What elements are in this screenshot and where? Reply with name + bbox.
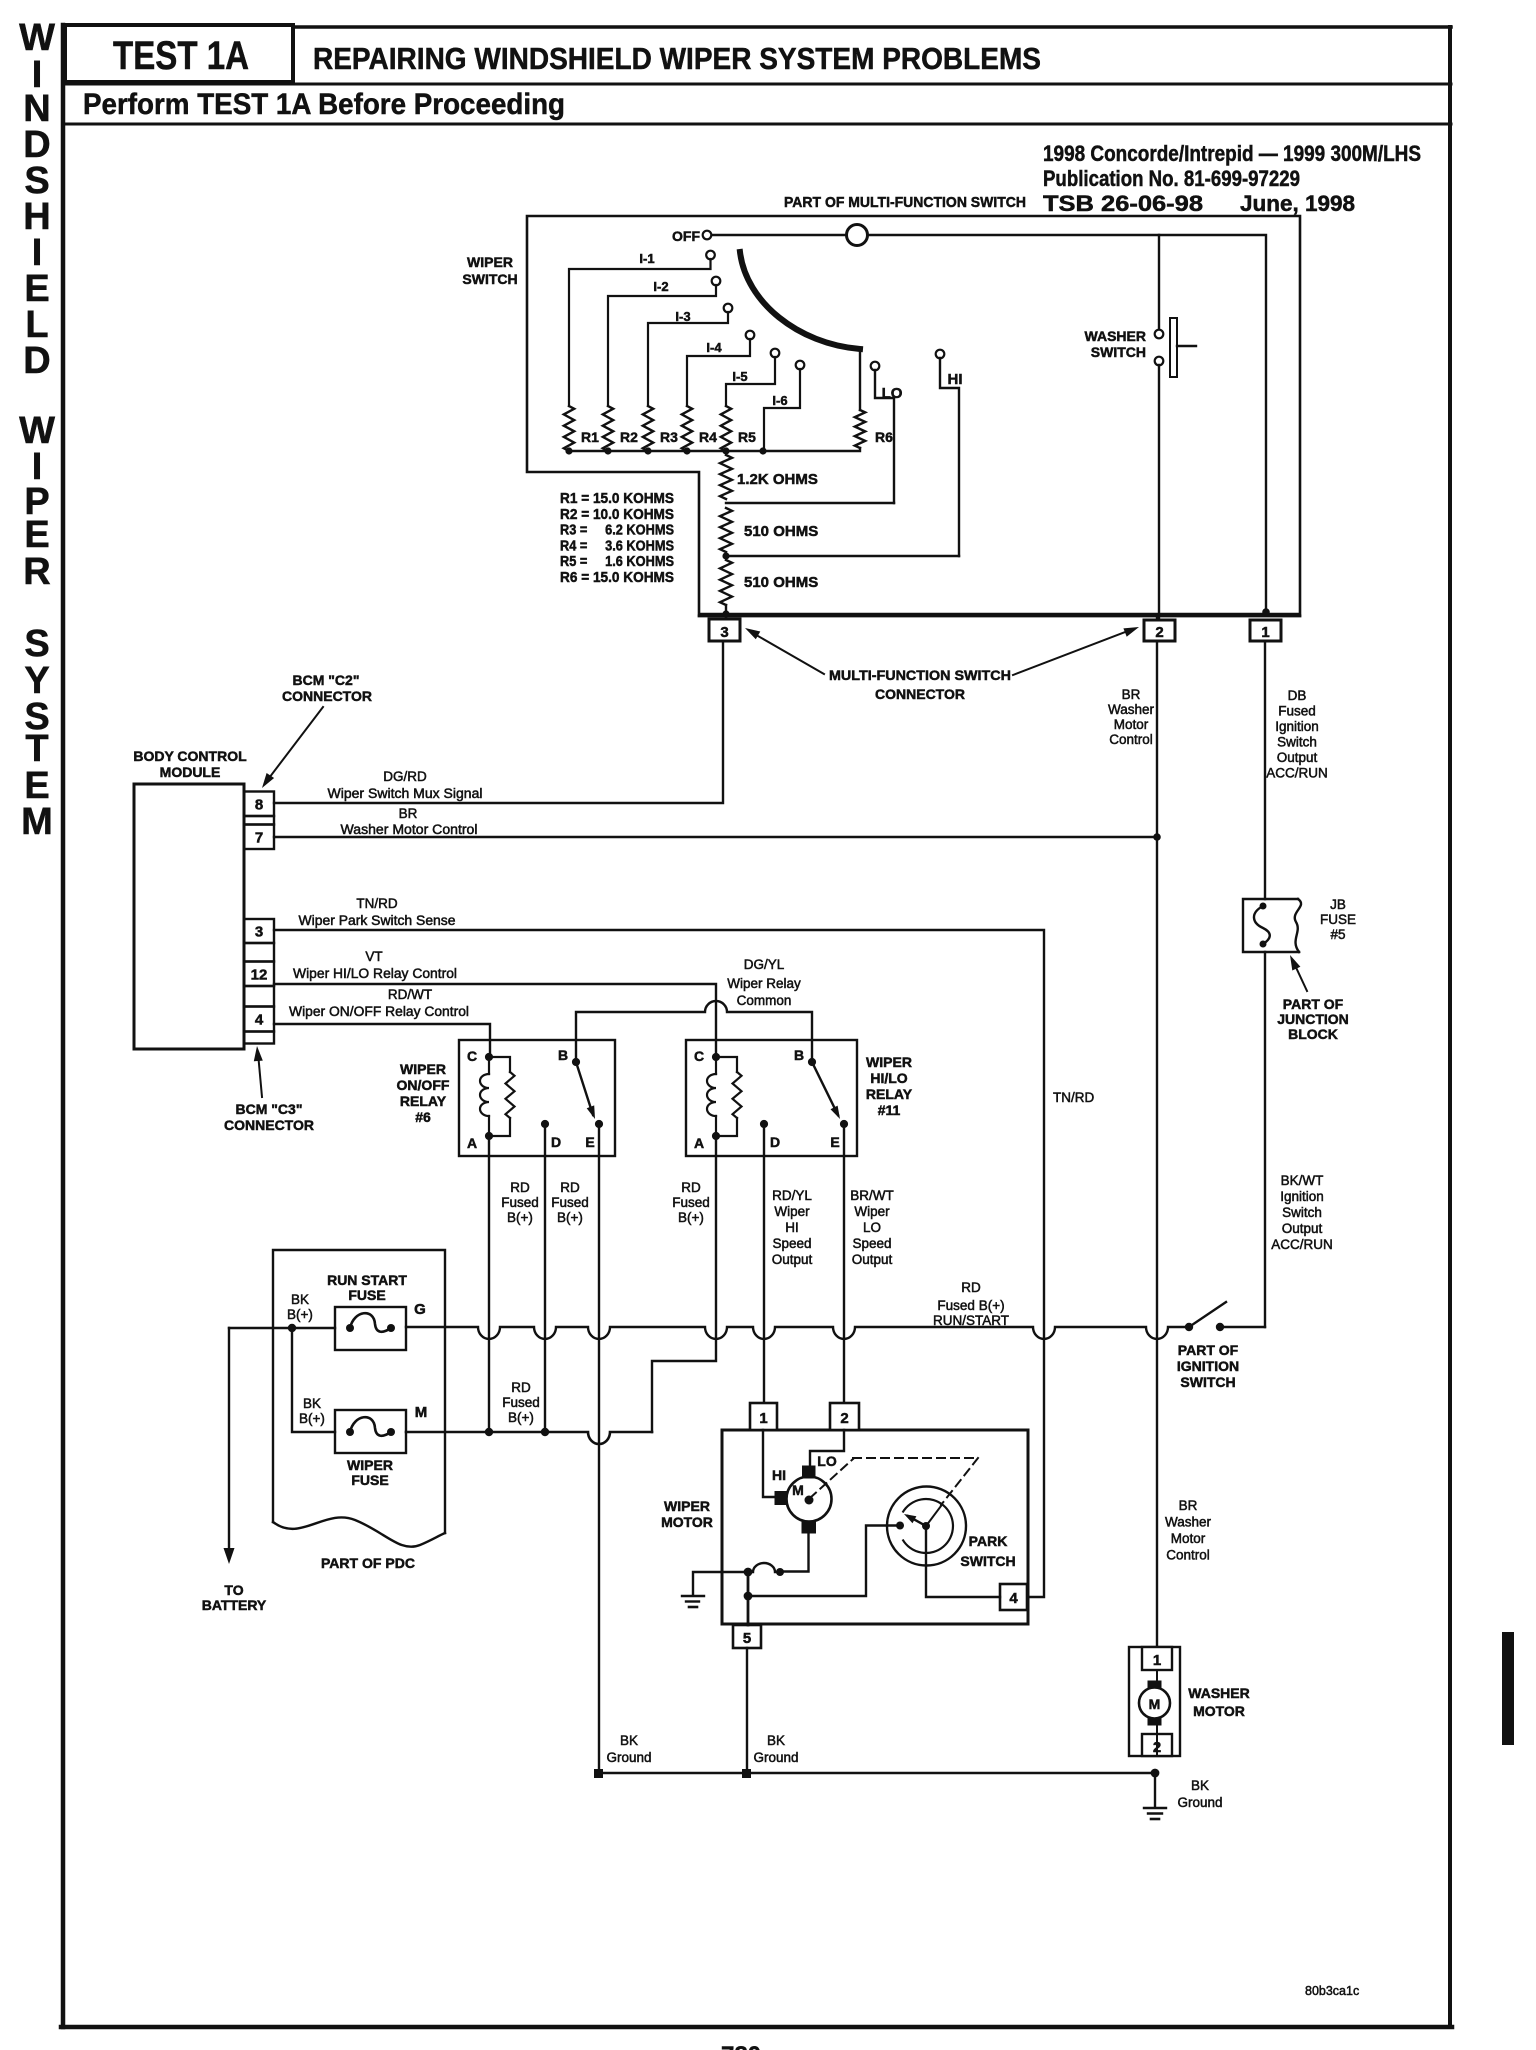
svg-text:RD/YL: RD/YL bbox=[772, 1188, 812, 1203]
svg-text:R2 = 10.0 KOHMS: R2 = 10.0 KOHMS bbox=[560, 507, 674, 523]
svg-text:Perform TEST 1A Before Proceed: Perform TEST 1A Before Proceeding bbox=[83, 88, 565, 121]
svg-text:I-4: I-4 bbox=[706, 340, 722, 355]
svg-text:SWITCH: SWITCH bbox=[1180, 1374, 1235, 1390]
arrow to connector 3 bbox=[745, 628, 824, 674]
motor pin 4 bbox=[1000, 1584, 1027, 1610]
svg-text:R1: R1 bbox=[581, 429, 599, 445]
TEST 1A box bbox=[65, 25, 293, 82]
relay WIPER ON/OFF RELAY #6 bbox=[459, 1040, 615, 1156]
label BR washer motor control upper bbox=[1108, 687, 1155, 747]
dashed mechanical link bbox=[810, 1458, 978, 1505]
washer motor box bbox=[1129, 1647, 1180, 1756]
svg-text:W: W bbox=[19, 17, 55, 59]
svg-text:Ground: Ground bbox=[753, 1750, 798, 1765]
svg-text:Wiper Switch Mux Signal: Wiper Switch Mux Signal bbox=[328, 786, 483, 801]
svg-text:CONNECTOR: CONNECTOR bbox=[875, 686, 965, 702]
label WIPER HI/LO RELAY #11 bbox=[866, 1054, 913, 1118]
svg-text:12: 12 bbox=[251, 966, 268, 983]
wire park left contact bbox=[752, 1526, 896, 1597]
terminal I-6 bbox=[764, 361, 804, 451]
svg-text:HI: HI bbox=[772, 1467, 786, 1483]
svg-text:Fused: Fused bbox=[502, 1395, 540, 1410]
label JB FUSE #5 bbox=[1320, 897, 1356, 942]
svg-text:RUN/START: RUN/START bbox=[933, 1313, 1009, 1328]
svg-text:2: 2 bbox=[840, 1410, 848, 1427]
svg-text:3: 3 bbox=[720, 624, 728, 641]
svg-text:RELAY: RELAY bbox=[866, 1086, 913, 1102]
label WIPER SWITCH bbox=[462, 254, 517, 287]
svg-text:WASHER: WASHER bbox=[1085, 328, 1146, 344]
plot id bbox=[1305, 1984, 1359, 1998]
svg-text:Common: Common bbox=[737, 993, 792, 1008]
label PART OF PDC bbox=[321, 1555, 415, 1571]
resistor R2 bbox=[603, 406, 638, 451]
svg-text:Output: Output bbox=[1277, 750, 1318, 765]
svg-text:JB: JB bbox=[1330, 897, 1346, 912]
label RUN START FUSE bbox=[327, 1272, 407, 1303]
node HI junction line bbox=[722, 552, 959, 559]
resistor 1.2K OHMS bbox=[720, 455, 818, 499]
label WASHER MOTOR bbox=[1188, 1685, 1249, 1719]
svg-text:Output: Output bbox=[852, 1252, 893, 1267]
scan artifact bar bbox=[1502, 1632, 1514, 1745]
label WASHER SWITCH bbox=[1085, 328, 1146, 360]
svg-text:TEST 1A: TEST 1A bbox=[113, 34, 249, 78]
wire relay11 A fused B+ bbox=[652, 1136, 716, 1432]
svg-text:B(+): B(+) bbox=[507, 1210, 533, 1225]
svg-text:Switch: Switch bbox=[1282, 1205, 1322, 1220]
svg-text:Fused: Fused bbox=[551, 1195, 589, 1210]
svg-text:Motor: Motor bbox=[1171, 1531, 1206, 1546]
svg-text:S: S bbox=[24, 623, 49, 665]
svg-text:D: D bbox=[23, 340, 50, 382]
motor pin 1 bbox=[750, 1403, 777, 1430]
svg-text:JUNCTION: JUNCTION bbox=[1277, 1011, 1349, 1027]
svg-text:780: 780 bbox=[721, 2042, 761, 2050]
header rule bbox=[63, 84, 1451, 124]
svg-text:BR: BR bbox=[1122, 687, 1141, 702]
svg-text:MOTOR: MOTOR bbox=[1193, 1703, 1245, 1719]
svg-text:510 OHMS: 510 OHMS bbox=[744, 574, 818, 591]
svg-text:June, 1998: June, 1998 bbox=[1240, 191, 1355, 216]
wire BR washer motor control bbox=[274, 806, 1161, 841]
wire relay6 A fused B+ bbox=[488, 1136, 490, 1432]
svg-text:Speed: Speed bbox=[852, 1236, 891, 1251]
svg-text:BR/WT: BR/WT bbox=[850, 1188, 894, 1203]
label BCM C3 CONNECTOR bbox=[224, 1046, 314, 1133]
vertical page title WINDSHIELD WIPER SYSTEM bbox=[19, 17, 55, 843]
node LO junction line bbox=[726, 502, 894, 504]
svg-text:R4: R4 bbox=[699, 429, 717, 445]
svg-text:Control: Control bbox=[1109, 732, 1153, 747]
wire motor pin1 to HI brush bbox=[763, 1430, 775, 1497]
cam arc bbox=[740, 252, 860, 349]
wiper motor box bbox=[722, 1430, 1028, 1624]
label MULTI-FUNCTION SWITCH CONNECTOR bbox=[829, 667, 1011, 702]
svg-text:I-6: I-6 bbox=[772, 393, 787, 408]
svg-text:WIPER: WIPER bbox=[400, 1061, 446, 1077]
thermal breaker bbox=[744, 1563, 784, 1576]
svg-text:G: G bbox=[414, 1301, 426, 1318]
label BR/WT wiper lo speed output bbox=[850, 1188, 894, 1267]
vehicle info text bbox=[1043, 141, 1421, 216]
svg-text:M: M bbox=[1149, 1696, 1161, 1712]
svg-text:B(+): B(+) bbox=[557, 1210, 583, 1225]
JB fuse #5 bbox=[1243, 899, 1301, 952]
svg-text:8: 8 bbox=[255, 796, 263, 813]
svg-text:I-2: I-2 bbox=[653, 279, 668, 294]
svg-text:#11: #11 bbox=[878, 1102, 901, 1118]
svg-text:3: 3 bbox=[255, 924, 263, 941]
svg-text:DG/YL: DG/YL bbox=[744, 957, 785, 972]
svg-text:PARK: PARK bbox=[969, 1533, 1008, 1549]
multi-function switch box bbox=[527, 216, 1300, 616]
svg-text:PART OF: PART OF bbox=[1178, 1342, 1239, 1358]
svg-text:RUN START: RUN START bbox=[327, 1272, 407, 1288]
svg-text:TN/RD: TN/RD bbox=[356, 896, 397, 911]
svg-text:BK: BK bbox=[303, 1396, 321, 1411]
svg-text:REPAIRING WINDSHIELD WIPER SYS: REPAIRING WINDSHIELD WIPER SYSTEM PROBLE… bbox=[313, 41, 1041, 76]
label RD fused B+ RUN/START bbox=[933, 1280, 1009, 1328]
PDC box bbox=[273, 1250, 445, 1547]
svg-text:SWITCH: SWITCH bbox=[960, 1553, 1015, 1569]
svg-text:510 OHMS: 510 OHMS bbox=[744, 523, 818, 540]
svg-text:I-1: I-1 bbox=[639, 251, 654, 266]
wire relay6 E ground bbox=[598, 1124, 600, 1773]
svg-text:ON/OFF: ON/OFF bbox=[397, 1077, 450, 1093]
resistor 510 OHMS lower bbox=[720, 560, 818, 605]
washer motor pin 1 bbox=[1142, 1647, 1172, 1670]
svg-text:BLOCK: BLOCK bbox=[1288, 1026, 1338, 1042]
svg-text:D: D bbox=[770, 1134, 780, 1150]
svg-text:R6: R6 bbox=[875, 429, 893, 445]
label WIPER MOTOR bbox=[661, 1498, 713, 1530]
svg-text:C: C bbox=[467, 1048, 477, 1064]
svg-text:Fused: Fused bbox=[672, 1195, 710, 1210]
label TN/RD mid bbox=[1053, 1090, 1094, 1105]
svg-text:VT: VT bbox=[365, 949, 382, 964]
svg-text:SWITCH: SWITCH bbox=[462, 271, 517, 287]
svg-text:RD: RD bbox=[681, 1180, 701, 1195]
label RD fused B+ (relay11 A) bbox=[672, 1180, 710, 1225]
label BR washer motor control lower bbox=[1165, 1498, 1212, 1563]
terminal I-5 bbox=[726, 349, 779, 406]
arrow to connector 2 bbox=[1013, 627, 1139, 675]
svg-text:R3: R3 bbox=[660, 429, 678, 445]
arrow to JB fuse bbox=[1290, 955, 1307, 991]
wire cam to R6 bbox=[859, 349, 861, 410]
resistor R6 bbox=[855, 410, 893, 448]
wire OFF feed bbox=[711, 235, 1266, 612]
ground symbol motor case bbox=[682, 1596, 704, 1607]
svg-text:M: M bbox=[415, 1404, 428, 1421]
svg-text:5: 5 bbox=[743, 1630, 751, 1647]
wire BK B+ to wiper fuse bbox=[292, 1328, 335, 1432]
svg-text:WIPER: WIPER bbox=[664, 1498, 710, 1514]
wire TN/RD wiper park switch sense bbox=[274, 896, 1044, 1597]
connector pin 1 bbox=[1250, 620, 1281, 641]
svg-text:M: M bbox=[21, 801, 53, 843]
svg-text:E: E bbox=[24, 514, 49, 556]
svg-text:R2: R2 bbox=[620, 429, 638, 445]
BCM body control module box bbox=[134, 784, 244, 1049]
svg-text:Washer: Washer bbox=[1108, 702, 1155, 717]
svg-text:R6 = 15.0 KOHMS: R6 = 15.0 KOHMS bbox=[560, 570, 674, 586]
header title bbox=[313, 41, 1041, 76]
svg-text:LO: LO bbox=[817, 1453, 837, 1469]
svg-text:Wiper: Wiper bbox=[774, 1204, 810, 1219]
svg-text:Wiper Park Switch Sense: Wiper Park Switch Sense bbox=[299, 913, 456, 928]
wire DB fused ignition output bbox=[1264, 641, 1266, 899]
svg-text:E: E bbox=[830, 1134, 839, 1150]
bus RD fused B+ RUN/START bbox=[406, 1327, 1185, 1339]
ignition switch bbox=[1185, 1302, 1265, 1331]
svg-text:ACC/RUN: ACC/RUN bbox=[1271, 1237, 1333, 1252]
terminal LO bbox=[871, 362, 903, 503]
svg-text:TO: TO bbox=[224, 1582, 243, 1598]
svg-text:PART OF PDC: PART OF PDC bbox=[321, 1555, 415, 1571]
svg-text:80b3ca1c: 80b3ca1c bbox=[1305, 1984, 1359, 1998]
ground bus bbox=[594, 1769, 1159, 1778]
label RD/YL wiper hi speed output bbox=[772, 1188, 813, 1267]
label RD fused B+ (M bus) bbox=[502, 1380, 540, 1425]
svg-text:MOTOR: MOTOR bbox=[661, 1514, 713, 1530]
svg-text:TSB 26-06-98: TSB 26-06-98 bbox=[1043, 191, 1203, 216]
svg-text:RD: RD bbox=[961, 1280, 981, 1295]
wire DG/YL wiper relay common bbox=[576, 957, 812, 1062]
svg-text:Ignition: Ignition bbox=[1280, 1189, 1324, 1204]
svg-text:T: T bbox=[25, 728, 48, 770]
label BK B+ (wiper fuse) bbox=[299, 1396, 325, 1426]
wire BK/WT ignition switch output bbox=[1264, 952, 1266, 1327]
label BK Ground (motor) bbox=[753, 1733, 798, 1765]
resistor R5 bbox=[721, 406, 756, 451]
wire battery feed bbox=[229, 1324, 335, 1332]
svg-text:RD: RD bbox=[560, 1180, 580, 1195]
svg-text:R5: R5 bbox=[738, 429, 756, 445]
svg-text:Wiper: Wiper bbox=[854, 1204, 890, 1219]
svg-text:I-5: I-5 bbox=[732, 369, 747, 384]
svg-text:ACC/RUN: ACC/RUN bbox=[1266, 766, 1328, 781]
wire washer ground bbox=[1154, 1773, 1156, 1806]
svg-text:MODULE: MODULE bbox=[160, 764, 221, 780]
svg-text:R: R bbox=[23, 551, 50, 593]
svg-text:RD: RD bbox=[510, 1180, 530, 1195]
svg-text:CONNECTOR: CONNECTOR bbox=[282, 688, 372, 704]
wire BR washer motor control vertical bbox=[1156, 616, 1158, 1647]
svg-text:BK: BK bbox=[1191, 1778, 1209, 1793]
wire relay11 D RD/YL hi speed bbox=[763, 1124, 765, 1403]
resistor value table bbox=[560, 491, 674, 586]
svg-text:Fused: Fused bbox=[1278, 704, 1316, 719]
svg-text:BATTERY: BATTERY bbox=[202, 1597, 267, 1613]
svg-text:PART OF: PART OF bbox=[1283, 996, 1344, 1012]
run/start fuse bbox=[335, 1301, 426, 1350]
svg-text:BCM "C2": BCM "C2" bbox=[293, 672, 360, 688]
svg-text:IGNITION: IGNITION bbox=[1177, 1358, 1239, 1374]
label PART OF MULTI-FUNCTION SWITCH bbox=[784, 194, 1026, 211]
motor pin 2 bbox=[830, 1403, 859, 1430]
resistor R1 bbox=[564, 406, 599, 451]
svg-text:B(+): B(+) bbox=[678, 1210, 704, 1225]
svg-text:#5: #5 bbox=[1330, 927, 1345, 942]
svg-text:Fused B(+): Fused B(+) bbox=[937, 1298, 1004, 1313]
svg-text:Switch: Switch bbox=[1277, 735, 1317, 750]
svg-text:Output: Output bbox=[1282, 1221, 1323, 1236]
svg-text:A: A bbox=[694, 1135, 704, 1151]
wire VT wiper hi/lo relay control bbox=[274, 949, 716, 1054]
node connector1 junction bbox=[1262, 608, 1270, 616]
wire washer switch feed bbox=[1158, 235, 1160, 330]
svg-text:Wiper HI/LO Relay Control: Wiper HI/LO Relay Control bbox=[293, 966, 457, 981]
wire motor pin2 to LO brush bbox=[810, 1430, 844, 1466]
svg-text:E: E bbox=[585, 1134, 594, 1150]
svg-text:DG/RD: DG/RD bbox=[383, 769, 427, 784]
motor pin 5 bbox=[733, 1625, 761, 1648]
svg-text:LO: LO bbox=[863, 1220, 881, 1235]
wire park common to pin 4 bbox=[926, 1530, 1000, 1597]
svg-text:FUSE: FUSE bbox=[1320, 912, 1356, 927]
resistor 510 OHMS upper bbox=[720, 508, 818, 552]
svg-text:RD/WT: RD/WT bbox=[388, 987, 432, 1002]
label WIPER ON/OFF RELAY #6 bbox=[397, 1061, 450, 1125]
svg-text:BK: BK bbox=[620, 1733, 638, 1748]
svg-text:FUSE: FUSE bbox=[351, 1472, 388, 1488]
svg-text:Washer: Washer bbox=[1165, 1515, 1212, 1530]
rotor contact bbox=[847, 225, 868, 246]
svg-text:TN/RD: TN/RD bbox=[1053, 1090, 1094, 1105]
svg-text:4: 4 bbox=[255, 1012, 264, 1029]
wiper fuse bbox=[335, 1404, 427, 1453]
terminal I-1 bbox=[569, 251, 715, 406]
svg-text:BK: BK bbox=[291, 1292, 309, 1307]
OFF terminal bbox=[672, 228, 711, 244]
motor armature bbox=[775, 1466, 832, 1533]
relay WIPER HI/LO RELAY #11 bbox=[686, 1040, 857, 1156]
svg-text:FUSE: FUSE bbox=[348, 1287, 385, 1303]
svg-text:MULTI-FUNCTION SWITCH: MULTI-FUNCTION SWITCH bbox=[829, 667, 1011, 683]
park switch bbox=[887, 1487, 966, 1566]
svg-text:HI/LO: HI/LO bbox=[870, 1070, 907, 1086]
label HI bbox=[772, 1467, 786, 1483]
resistor R3 bbox=[643, 406, 678, 451]
svg-text:WIPER: WIPER bbox=[347, 1457, 393, 1473]
svg-text:R5 = 1.6 KOHMS: R5 = 1.6 KOHMS bbox=[560, 554, 674, 570]
svg-text:WIPER: WIPER bbox=[467, 254, 513, 270]
svg-text:B(+): B(+) bbox=[287, 1307, 313, 1322]
label PART OF JUNCTION BLOCK bbox=[1277, 996, 1349, 1042]
page number bbox=[721, 2042, 761, 2050]
terminal I-2 bbox=[608, 277, 720, 406]
terminal I-3 bbox=[648, 304, 732, 406]
BCM connector pins bbox=[244, 792, 274, 1044]
label TO BATTERY bbox=[202, 1582, 267, 1613]
svg-text:D: D bbox=[551, 1134, 561, 1150]
svg-text:1.2K OHMS: 1.2K OHMS bbox=[737, 471, 818, 488]
label RD fused B+ (relay6 A) bbox=[501, 1180, 539, 1225]
svg-text:Motor: Motor bbox=[1114, 717, 1149, 732]
svg-text:OFF: OFF bbox=[672, 228, 700, 244]
svg-text:Wiper Relay: Wiper Relay bbox=[727, 976, 801, 991]
subheader bbox=[83, 88, 565, 121]
svg-text:1998 Concorde/Intrepid — 1999: 1998 Concorde/Intrepid — 1999 300M/LHS bbox=[1043, 141, 1421, 166]
svg-text:B: B bbox=[794, 1047, 804, 1063]
svg-text:1: 1 bbox=[759, 1410, 767, 1427]
svg-text:DB: DB bbox=[1288, 688, 1307, 703]
svg-text:BR: BR bbox=[399, 806, 418, 821]
svg-text:#6: #6 bbox=[415, 1109, 431, 1125]
svg-text:Publication No. 81-699-97229: Publication No. 81-699-97229 bbox=[1043, 166, 1300, 191]
label RD fused B+ (relay6 D) bbox=[551, 1180, 589, 1225]
svg-text:Control: Control bbox=[1166, 1548, 1210, 1563]
svg-text:HI: HI bbox=[785, 1220, 799, 1235]
svg-text:BK/WT: BK/WT bbox=[1281, 1173, 1324, 1188]
svg-text:LO: LO bbox=[882, 385, 903, 402]
label PARK SWITCH bbox=[960, 1533, 1015, 1569]
svg-text:Output: Output bbox=[772, 1252, 813, 1267]
svg-text:RELAY: RELAY bbox=[400, 1093, 447, 1109]
connector pin 3 bbox=[709, 619, 740, 641]
svg-text:PART OF MULTI-FUNCTION SWITCH: PART OF MULTI-FUNCTION SWITCH bbox=[784, 194, 1026, 211]
wire motor ground internal bbox=[784, 1533, 809, 1572]
wire relay6 D fused B+ bbox=[544, 1124, 546, 1432]
svg-text:A: A bbox=[467, 1135, 477, 1151]
svg-text:M: M bbox=[792, 1482, 804, 1498]
wire washer switch output bbox=[1158, 365, 1160, 620]
washer switch bbox=[1155, 318, 1196, 377]
svg-text:7: 7 bbox=[255, 829, 263, 846]
svg-text:Fused: Fused bbox=[501, 1195, 539, 1210]
label BK B+ (run/start) bbox=[287, 1292, 313, 1322]
svg-text:RD: RD bbox=[511, 1380, 531, 1395]
svg-text:R3 = 6.2 KOHMS: R3 = 6.2 KOHMS bbox=[560, 523, 674, 539]
bus RD fused B+ (wiper fuse) bbox=[406, 1428, 652, 1444]
wire pin5 ground bbox=[746, 1648, 748, 1773]
wire DG/RD wiper switch mux signal bbox=[274, 641, 723, 803]
svg-text:Ignition: Ignition bbox=[1275, 719, 1319, 734]
label BK Ground (relay) bbox=[606, 1733, 651, 1765]
label BK Ground (washer) bbox=[1177, 1778, 1222, 1810]
label WIPER FUSE bbox=[347, 1457, 393, 1488]
svg-text:BCM "C3": BCM "C3" bbox=[236, 1101, 303, 1117]
svg-text:B(+): B(+) bbox=[508, 1410, 534, 1425]
svg-text:HI: HI bbox=[948, 371, 963, 388]
connector pin 2 bbox=[1144, 620, 1175, 641]
terminal I-4 bbox=[687, 331, 754, 406]
svg-text:BK: BK bbox=[767, 1733, 785, 1748]
svg-text:WASHER: WASHER bbox=[1188, 1685, 1249, 1701]
svg-text:1: 1 bbox=[1153, 1652, 1161, 1669]
resistor R4 bbox=[682, 406, 717, 451]
svg-text:4: 4 bbox=[1009, 1590, 1018, 1607]
label DB fused ignition switch output bbox=[1266, 688, 1328, 781]
svg-text:1: 1 bbox=[1261, 624, 1269, 641]
washer motor armature bbox=[1139, 1670, 1170, 1756]
svg-text:CONNECTOR: CONNECTOR bbox=[224, 1117, 314, 1133]
svg-text:Ground: Ground bbox=[606, 1750, 651, 1765]
svg-text:Washer Motor Control: Washer Motor Control bbox=[341, 822, 478, 837]
label LO bbox=[817, 1453, 837, 1469]
wire relay11 E BR/WT lo speed bbox=[843, 1125, 845, 1403]
svg-text:Speed: Speed bbox=[772, 1236, 811, 1251]
svg-text:WIPER: WIPER bbox=[866, 1054, 912, 1070]
svg-text:B(+): B(+) bbox=[299, 1411, 325, 1426]
svg-text:B: B bbox=[558, 1047, 568, 1063]
svg-text:Ground: Ground bbox=[1177, 1795, 1222, 1810]
resistor ladder bus bbox=[565, 447, 860, 454]
svg-text:Wiper ON/OFF Relay Control: Wiper ON/OFF Relay Control bbox=[289, 1004, 469, 1019]
wire case ground bbox=[693, 1572, 748, 1594]
